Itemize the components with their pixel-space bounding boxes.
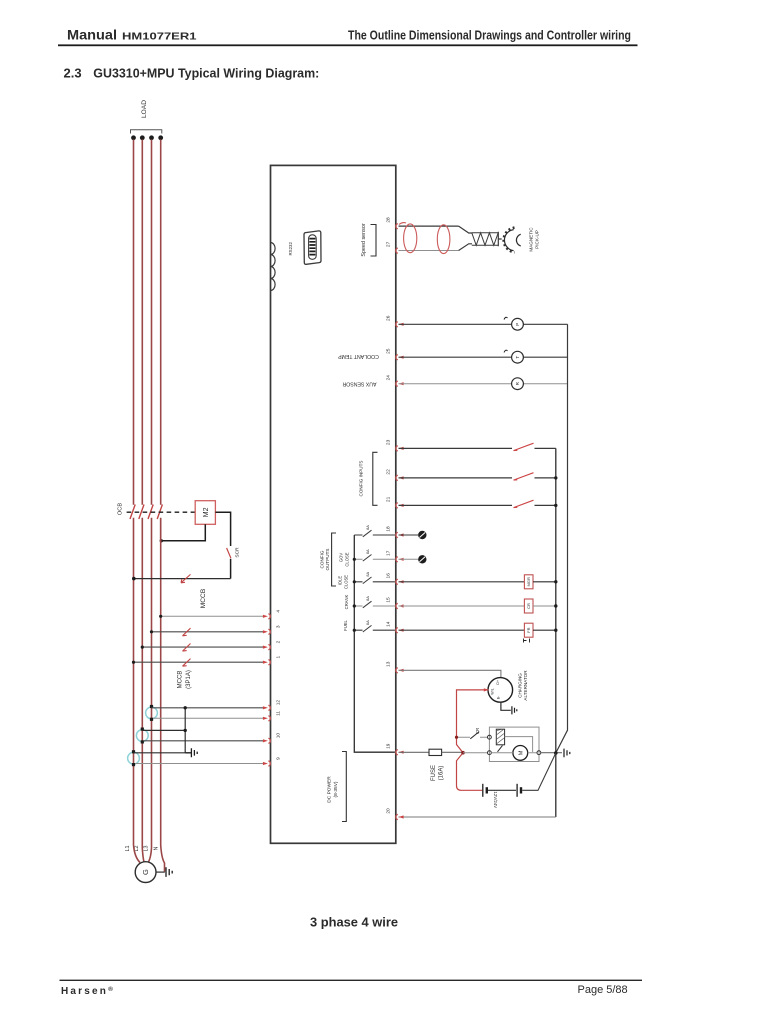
battery plate 2 short	[520, 787, 522, 793]
svg-text:23: 23	[385, 439, 391, 445]
svg-text:(16A): (16A)	[439, 766, 445, 781]
terminal 25 cup	[396, 355, 398, 360]
svg-text:17: 17	[385, 550, 391, 556]
relay MGR box	[524, 575, 533, 589]
load terminal dot 2	[140, 135, 145, 140]
terminal 15 cup	[396, 603, 398, 608]
svg-text:MCCB: MCCB	[200, 588, 207, 608]
starter terminal circle right	[537, 751, 541, 755]
svg-text:CHARGING: CHARGING	[517, 673, 522, 698]
twisted pair loop 2	[437, 225, 450, 254]
wire output 17	[399, 558, 419, 560]
junction MCCB aux on L1	[132, 577, 136, 581]
red arrow terminal 1	[263, 661, 268, 664]
wire fuse to battery node	[442, 751, 463, 753]
OCB breaker blade pole 4	[157, 505, 162, 520]
wire M2 to N pole	[161, 524, 205, 541]
red arrow terminal 11	[263, 717, 268, 720]
wire L3 middle	[151, 518, 153, 848]
wire L2 middle	[141, 518, 143, 848]
junction CR tap	[455, 736, 458, 739]
red arrow terminal 24	[399, 382, 404, 385]
svg-text:G: G	[141, 869, 150, 875]
sensor common bus wire	[556, 324, 568, 753]
svg-text:8A: 8A	[365, 596, 370, 601]
terminal 23 cup	[396, 446, 398, 451]
red arrow terminal 21	[399, 504, 404, 507]
svg-text:CLOSE: CLOSE	[343, 575, 348, 589]
red arrow terminal 16	[399, 580, 404, 583]
wire L3 upper	[151, 140, 153, 505]
svg-text:15: 15	[385, 597, 391, 603]
red arrow terminal 19	[399, 751, 404, 754]
terminal 1 cup	[268, 660, 270, 665]
OCB breaker blade pole 3	[148, 505, 153, 520]
svg-text:Speed sensor: Speed sensor	[361, 223, 367, 256]
terminal 17 cup	[396, 557, 398, 562]
svg-text:11: 11	[275, 711, 281, 716]
svg-text:CR: CR	[526, 603, 531, 609]
wire terminal 22 input	[399, 477, 556, 479]
red arrow terminal 10	[263, 739, 268, 742]
RS232 connector slot	[309, 235, 317, 259]
starter terminal circle left	[488, 751, 492, 755]
output 16 fuse blade	[363, 577, 372, 584]
svg-text:MAGNETIC: MAGNETIC	[529, 227, 534, 252]
wire to terminal 1	[134, 661, 265, 663]
MCCB aux red blade	[181, 574, 191, 582]
red arrow at alternator D+	[484, 688, 489, 691]
red arrow terminal 3	[263, 630, 268, 633]
wire solenoid to motor branch	[505, 737, 533, 752]
svg-text:OUTPUTS: OUTPUTS	[325, 549, 330, 571]
red arrow terminal 4	[263, 615, 268, 618]
output row 18: switch stub	[354, 534, 395, 536]
battery plate - short	[486, 787, 488, 793]
terminal 27 cup	[396, 248, 398, 253]
wire SCR to MCCB aux line	[230, 559, 232, 579]
coolant temp sender T	[512, 351, 524, 363]
svg-text:FUSE: FUSE	[431, 765, 437, 781]
controller left-edge coil bumps	[271, 243, 276, 291]
wire terminal 25 to temp sensor	[399, 356, 568, 358]
svg-text:N: N	[153, 846, 159, 850]
junction wire2-T2	[141, 646, 144, 649]
svg-text:13: 13	[385, 661, 391, 667]
ST solenoid contact blade	[498, 745, 503, 751]
battery plate + long	[482, 784, 484, 797]
wire to terminal 3	[152, 631, 265, 633]
wire L3 bend into generator	[149, 848, 152, 862]
svg-text:14: 14	[385, 621, 391, 627]
junction bus 22	[554, 476, 557, 479]
output 15 fuse blade	[363, 601, 372, 608]
motor operator M2 box	[195, 501, 215, 525]
svg-text:2.3: 2.3	[64, 66, 82, 81]
junction bus row16	[353, 580, 356, 583]
svg-text:(8-35V): (8-35V)	[333, 781, 339, 797]
terminal 20 cup	[396, 814, 398, 819]
svg-text:(3P1A): (3P1A)	[186, 670, 192, 689]
svg-text:HM1077ER1: HM1077ER1	[122, 31, 197, 43]
svg-text:1: 1	[275, 656, 281, 659]
fuse F1 body	[429, 749, 442, 755]
svg-text:The Outline Dimensional Drawin: The Outline Dimensional Drawings and Con…	[348, 28, 631, 43]
LOAD bracket	[131, 130, 162, 134]
wire through starter	[491, 752, 537, 754]
relay CR box	[524, 599, 533, 613]
SCR contact blade	[227, 548, 231, 558]
junction bus row15 right	[554, 604, 557, 607]
MCCB blade pole 2	[183, 644, 191, 652]
svg-text:L1: L1	[125, 846, 131, 852]
terminal 14 cup	[396, 628, 398, 633]
MCCB blade pole 1	[183, 659, 191, 667]
magnetic pickup thread zigzag	[472, 233, 499, 246]
output feed bus from terminal 19	[354, 535, 395, 752]
wire starter to ground node	[541, 752, 562, 754]
svg-text:8A: 8A	[365, 549, 370, 554]
svg-text:Harsen®: Harsen®	[61, 985, 113, 997]
CR contact blade	[470, 732, 479, 739]
speed sensor bracket	[371, 225, 377, 257]
svg-text:P: P	[515, 323, 520, 326]
wire output 15 to CR relay	[399, 605, 525, 607]
header rule	[58, 44, 638, 46]
svg-text:MCCB: MCCB	[177, 671, 183, 689]
ground alternator	[512, 706, 517, 714]
red arrow terminal 2	[263, 646, 268, 649]
wire N bend to ground junction	[161, 845, 165, 872]
svg-text:PICK-UP: PICK-UP	[534, 230, 539, 249]
svg-text:19: 19	[385, 743, 391, 749]
terminal 19 cup	[396, 750, 398, 755]
wire terminal 24 to aux sensor	[399, 383, 568, 385]
svg-text:3 phase 4 wire: 3 phase 4 wire	[310, 915, 398, 930]
wire terminal 27 to pickup	[399, 250, 459, 252]
svg-text:GU3310+MPU Typical Wiring Diag: GU3310+MPU Typical Wiring Diagram:	[93, 66, 319, 81]
svg-text:Manual: Manual	[67, 27, 117, 43]
output 17 plug blob	[418, 555, 426, 563]
red arrow terminal 12	[263, 706, 268, 709]
svg-text:IDLE: IDLE	[338, 576, 343, 586]
output 18 fuse blade	[363, 530, 372, 537]
svg-text:OCB: OCB	[117, 503, 123, 515]
DC power bracket	[342, 752, 346, 822]
twisted pair loop 1	[404, 224, 417, 253]
config outputs bracket	[332, 533, 336, 586]
wire MCCB aux line	[134, 578, 231, 580]
pickup gear rim	[504, 230, 513, 251]
terminal 16 cup	[396, 579, 398, 584]
wire L1 bend into generator	[134, 845, 141, 863]
svg-text:ALTERNATOR: ALTERNATOR	[523, 670, 528, 701]
red arrow terminal 23	[399, 447, 404, 450]
OCB breaker blade pole 1	[130, 505, 135, 520]
wire N below OCB (black segment)	[160, 519, 162, 542]
wire terminal 19 to fuse	[399, 751, 430, 753]
svg-text:18: 18	[385, 526, 391, 532]
svg-text:LOAD: LOAD	[141, 100, 148, 118]
svg-text:3: 3	[275, 625, 281, 628]
red arrow terminal 14	[399, 629, 404, 632]
terminal 28 cup	[396, 224, 398, 229]
red arrow terminal 20	[399, 815, 404, 818]
output row 15: switch stub	[354, 605, 395, 607]
svg-text:12: 12	[275, 700, 281, 706]
wire terminal 23 input	[399, 447, 556, 449]
charging alternator circle	[488, 678, 513, 703]
wire to terminal 4	[161, 615, 265, 617]
svg-text:20: 20	[385, 808, 391, 814]
output 14 fuse blade	[363, 625, 372, 632]
svg-text:16: 16	[385, 573, 391, 579]
battery inter-cell wire	[488, 789, 516, 791]
terminal 21 cup	[396, 503, 398, 508]
svg-text:T: T	[515, 356, 520, 359]
junction wire4-T4	[159, 615, 162, 618]
svg-text:DC POWER: DC POWER	[326, 776, 332, 803]
junction battery+ node	[461, 751, 465, 755]
red arrow terminal 18	[399, 533, 404, 536]
svg-text:B-: B-	[496, 695, 500, 699]
svg-text:COOLANT TEMP: COOLANT TEMP	[338, 353, 379, 359]
svg-text:D+: D+	[496, 680, 500, 685]
starter assembly box	[489, 727, 539, 761]
svg-text:MGR: MGR	[526, 577, 531, 586]
svg-text:M: M	[518, 750, 524, 755]
wire CT2 to terminal 10	[144, 740, 265, 742]
wire N middle	[160, 518, 162, 845]
generator G circle	[135, 862, 156, 883]
output row 17: switch stub	[354, 558, 395, 560]
RS232 connector U-COM outline	[304, 231, 321, 264]
svg-text:CLOSE: CLOSE	[344, 552, 349, 566]
relay FR box	[524, 623, 533, 637]
magnetic pickup tip	[498, 232, 501, 246]
terminal 2 cup	[268, 645, 270, 650]
wire output 18	[399, 534, 419, 536]
RS232 connector pins	[309, 239, 315, 255]
red wire battery+ to alternator D+	[457, 690, 489, 790]
wire battery to ground node diagonal	[522, 753, 556, 790]
wire terminal 13 to alternator D+	[399, 670, 501, 677]
FR polarity mark	[524, 639, 530, 643]
wire MGR to bus	[533, 581, 556, 583]
CT2 current transformer	[136, 730, 148, 742]
wire M2 right to SCR contact	[215, 512, 230, 546]
footer rule	[60, 980, 643, 981]
wire alternator case to ground	[501, 702, 511, 710]
battery plus bus wire	[555, 448, 557, 817]
terminal 9 cup	[268, 761, 270, 766]
input switch blade 22	[514, 473, 534, 480]
svg-text:9: 9	[275, 757, 281, 760]
red arrow terminal 15	[399, 604, 404, 607]
junction CT common mid	[184, 729, 187, 732]
wire FR to bus	[533, 629, 556, 631]
red arrow terminal 25	[399, 356, 404, 359]
wire CT3 to terminal 9	[135, 763, 265, 765]
magnetic pickup body	[459, 226, 472, 250]
junction bus 21	[554, 504, 557, 507]
CT3 current transformer	[128, 752, 140, 764]
input switch blade 21	[514, 500, 534, 507]
terminal 26 cup	[396, 322, 398, 327]
svg-text:8A: 8A	[365, 572, 370, 577]
junction bus row16 right	[554, 580, 557, 583]
terminal 13 cup	[396, 668, 398, 673]
svg-text:GOV: GOV	[339, 553, 344, 563]
svg-text:27: 27	[385, 241, 391, 247]
ground CT common	[185, 748, 197, 757]
CT1 current transformer	[146, 707, 158, 719]
wire CT1 to terminal 11	[153, 717, 265, 719]
wire L1 middle	[133, 518, 135, 845]
pickup gear hub	[516, 234, 520, 246]
wire CT2 to common	[142, 729, 185, 731]
OCB linkage dashed line	[127, 511, 196, 513]
oil pressure sender P	[512, 318, 524, 330]
wire to terminal 2	[142, 646, 264, 648]
svg-text:CONFIG: CONFIG	[319, 550, 324, 568]
red arrow terminal 13	[399, 669, 404, 672]
battery plate 2 long	[516, 784, 518, 797]
svg-text:W/L: W/L	[491, 688, 495, 694]
wire terminal 26 to oil sensor	[399, 323, 568, 325]
svg-text:26: 26	[385, 315, 391, 321]
svg-text:28: 28	[385, 217, 391, 223]
svg-text:L3: L3	[144, 846, 150, 852]
junction bus row15	[353, 604, 356, 607]
OCB breaker blade pole 2	[139, 505, 144, 520]
junction CT common top	[184, 706, 187, 709]
svg-text:SCR: SCR	[235, 547, 241, 558]
wire L2 upper	[141, 140, 143, 505]
starter motor M circle	[513, 746, 528, 761]
junction wire1-T1	[132, 661, 135, 664]
pickup gear teeth	[504, 228, 515, 253]
red arrow terminal 17	[399, 558, 404, 561]
ST solenoid coil	[496, 729, 504, 745]
svg-text:RS232: RS232	[288, 242, 293, 256]
svg-text:22: 22	[385, 469, 391, 475]
svg-text:M2: M2	[203, 507, 210, 517]
output row 16: switch stub	[354, 581, 395, 583]
svg-text:CR: CR	[475, 728, 480, 734]
terminal 22 cup	[396, 475, 398, 480]
terminal 11 cup	[268, 716, 270, 721]
svg-text:10: 10	[275, 733, 281, 739]
terminal 24 cup	[396, 381, 398, 386]
wire output 16 to MGR relay	[399, 581, 525, 583]
svg-text:4: 4	[275, 610, 281, 613]
svg-text:FR: FR	[526, 627, 531, 632]
controller GU3310 box outline	[271, 165, 396, 843]
wire output 14 to FR relay	[399, 629, 525, 631]
svg-text:2: 2	[275, 640, 281, 643]
svg-text:R: R	[515, 381, 520, 385]
svg-text:AUX SENSOR: AUX SENSOR	[342, 381, 376, 387]
svg-text:CRANK: CRANK	[344, 594, 349, 609]
starter coil terminal circle	[488, 735, 492, 739]
junction bus row14 right	[554, 629, 557, 632]
wire CT1 to terminal 12	[152, 707, 265, 709]
red arrow terminal 9	[263, 762, 268, 765]
ground battery minus	[564, 749, 570, 758]
junction bus row17	[353, 558, 356, 561]
junction ground node	[554, 751, 558, 755]
wire CR to bus	[533, 605, 556, 607]
terminal 3 cup	[268, 629, 270, 634]
svg-text:8A: 8A	[365, 525, 370, 530]
red arrow terminal 26	[399, 323, 404, 326]
red arrow at terminal 28	[399, 223, 406, 225]
sender mark 26	[504, 317, 508, 319]
load terminal dot 4	[158, 135, 163, 140]
red arrow terminal 22	[399, 476, 404, 479]
wire terminal 28 to pickup	[399, 225, 459, 227]
terminal 12 cup	[268, 705, 270, 710]
svg-text:12V/24V: 12V/24V	[493, 791, 498, 808]
CR crank contact wire	[457, 736, 488, 738]
wire L2 bend into generator	[142, 848, 144, 862]
terminal 10 cup	[268, 738, 270, 743]
svg-text:Page 5/88: Page 5/88	[578, 984, 628, 996]
wire bus to terminal 20	[399, 816, 556, 818]
terminal 18 cup	[396, 532, 398, 537]
ground generator	[166, 867, 172, 877]
output 18 plug blob	[418, 531, 426, 539]
load terminal dot 1	[131, 135, 136, 140]
input switch blade 23	[514, 443, 534, 450]
junction wire3-T3	[150, 630, 153, 633]
output row 14: switch stub	[354, 629, 395, 631]
MCCB blade pole 3	[183, 628, 191, 636]
load terminal dot 3	[149, 135, 154, 140]
wire battery node to starter	[463, 752, 488, 754]
sender mark 25	[504, 350, 508, 352]
wire terminal 21 input	[399, 504, 556, 506]
CT common vertical wire	[184, 708, 186, 753]
svg-text:24: 24	[385, 375, 391, 381]
svg-text:FUEL: FUEL	[343, 619, 348, 630]
wire N upper	[160, 140, 162, 505]
output 17 fuse blade	[363, 555, 372, 562]
svg-text:8A: 8A	[365, 620, 370, 625]
wire L1 upper	[133, 140, 135, 505]
wire CT3 to common	[134, 752, 186, 754]
terminal 4 cup	[268, 614, 270, 619]
config inputs bracket	[373, 452, 378, 505]
svg-text:25: 25	[385, 348, 391, 354]
aux sender R	[512, 378, 524, 390]
svg-text:21: 21	[385, 496, 391, 502]
svg-text:CONFIG INPUTS: CONFIG INPUTS	[359, 461, 364, 497]
junction bus row14	[353, 629, 356, 632]
wire generator to ground	[156, 871, 165, 873]
junction M2-N	[160, 539, 163, 542]
